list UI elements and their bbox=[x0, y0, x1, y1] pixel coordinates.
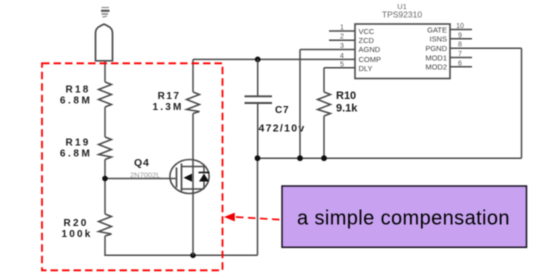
resistor R19 bbox=[99, 137, 112, 160]
wire COMP net (pin4 to R17 top) bbox=[193, 58, 355, 60]
svg-text:Q4: Q4 bbox=[134, 157, 150, 169]
node Q4 source to rail bbox=[190, 253, 196, 259]
svg-text:1.3M: 1.3M bbox=[152, 102, 183, 113]
svg-text:8: 8 bbox=[458, 42, 462, 49]
resistor R17 bbox=[192, 59, 194, 92]
wire fuse bottom to R18 top bbox=[104, 61, 106, 82]
svg-text:MOD2: MOD2 bbox=[425, 63, 447, 72]
fuse F1 (capsule body) bbox=[96, 24, 113, 61]
resistor R20 bbox=[99, 214, 112, 236]
net stub glyph above fuse bbox=[101, 8, 110, 18]
pin 9 ISNS bbox=[450, 38, 472, 40]
svg-text:R20: R20 bbox=[64, 218, 89, 229]
svg-text:10: 10 bbox=[456, 23, 464, 30]
pin 1 VCC bbox=[329, 30, 355, 32]
callout box: a simple compensation bbox=[282, 186, 527, 247]
node divider junction bbox=[102, 176, 108, 182]
svg-text:a simple compensation: a simple compensation bbox=[297, 208, 510, 230]
node C7 bottom junction bbox=[255, 155, 261, 161]
svg-text:COMP: COMP bbox=[359, 55, 382, 64]
transistor Q4 2N7002L bbox=[170, 160, 210, 194]
svg-text:C7: C7 bbox=[275, 105, 289, 116]
wire C7 junction down to bottom rail bbox=[257, 158, 259, 255]
svg-text:DLY: DLY bbox=[359, 64, 373, 73]
red callout arrow bbox=[236, 217, 282, 220]
pin 2 ZCD bbox=[329, 39, 355, 41]
svg-text:7: 7 bbox=[458, 51, 462, 58]
svg-text:5: 5 bbox=[340, 62, 344, 69]
wire R18 to R19 bbox=[104, 107, 106, 137]
IC U1 TPS92310 bbox=[355, 24, 450, 79]
svg-text:ZCD: ZCD bbox=[359, 36, 375, 45]
svg-text:R10: R10 bbox=[336, 90, 356, 102]
pin 6 MOD2 bbox=[450, 66, 472, 68]
wire mid rail (AGND net) bbox=[258, 157, 522, 159]
svg-text:AGND: AGND bbox=[359, 45, 381, 54]
svg-text:9: 9 bbox=[458, 32, 462, 39]
svg-text:VCC: VCC bbox=[359, 27, 375, 36]
pin 10 GATE bbox=[450, 29, 472, 31]
wire bottom rail bbox=[104, 254, 257, 256]
svg-text:GATE: GATE bbox=[427, 25, 447, 34]
svg-text:R18: R18 bbox=[66, 85, 91, 96]
wire gate from divider junction to Q4 bbox=[105, 178, 171, 180]
wire AGND pin3 down bbox=[299, 50, 301, 159]
svg-text:R17: R17 bbox=[158, 91, 181, 102]
svg-text:TPS92310: TPS92310 bbox=[382, 10, 422, 20]
svg-text:ISNS: ISNS bbox=[429, 35, 447, 44]
wire R20 to bottom rail bbox=[104, 236, 106, 255]
svg-text:1: 1 bbox=[340, 25, 344, 32]
svg-text:6.8M: 6.8M bbox=[60, 149, 93, 160]
svg-text:9.1k: 9.1k bbox=[336, 103, 358, 115]
resistor R18 bbox=[99, 82, 112, 107]
pin 8 PGND wire to rail bbox=[450, 47, 522, 49]
svg-text:100k: 100k bbox=[61, 229, 92, 240]
svg-text:4: 4 bbox=[340, 53, 344, 60]
svg-text:2: 2 bbox=[340, 34, 344, 41]
svg-text:MOD1: MOD1 bbox=[425, 53, 447, 62]
pin 7 MOD1 bbox=[450, 57, 472, 59]
node C7 top junction bbox=[255, 57, 261, 63]
svg-text:2N7002L: 2N7002L bbox=[130, 171, 160, 180]
node R10 rail junction bbox=[321, 155, 327, 161]
capacitor C7 bbox=[257, 59, 259, 95]
red dashed highlight rectangle bbox=[42, 63, 223, 270]
node AGND rail junction bbox=[297, 155, 303, 161]
resistor R10 bbox=[324, 67, 355, 69]
svg-text:PGND: PGND bbox=[425, 44, 447, 53]
wire R19 to R20 bbox=[104, 160, 106, 215]
svg-text:6: 6 bbox=[458, 60, 462, 67]
wire R17 / Q4 drain / Q4 source vertical bbox=[192, 114, 194, 256]
svg-text:472/10v: 472/10v bbox=[259, 123, 306, 135]
svg-text:R19: R19 bbox=[66, 138, 91, 149]
svg-text:3: 3 bbox=[340, 43, 344, 50]
svg-text:6.8M: 6.8M bbox=[60, 96, 93, 107]
